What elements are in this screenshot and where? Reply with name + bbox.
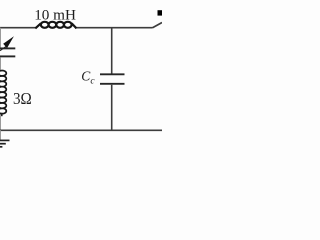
ground: bar 2 — [0, 143, 6, 145]
variable capacitor (left, cut off): top plate — [0, 47, 15, 49]
ground: bar 1 — [0, 139, 10, 141]
partial letter blob at top-right corner (cut off) — [158, 10, 163, 15]
capacitor C_C: top plate — [100, 73, 125, 75]
wire: capacitor branch lower vertical — [111, 85, 113, 130]
variable capacitor: bottom plate — [0, 55, 15, 57]
variable capacitor: arrowhead — [3, 36, 14, 48]
wire: top-right diagonal stub (cut off by crop) — [153, 23, 163, 28]
wire: left branch between capacitor and coil — [0, 57, 1, 70]
ground symbol (bottom-left, cut off): stem — [0, 130, 1, 139]
capacitor C_C: bottom plate — [100, 83, 125, 85]
wire: left branch upper vertical (at crop edge) — [0, 28, 1, 48]
wire: left branch lower stub to bottom wire — [1, 113, 3, 116]
ground: bar 3 — [0, 146, 2, 148]
variable capacitor: arrow shaft — [0, 45, 8, 50]
svg-text:Cc: Cc — [81, 68, 95, 86]
svg-text:3Ω: 3Ω — [13, 89, 32, 108]
inductor L1 10 mH (4 curly loops on top wire) — [35, 22, 76, 29]
wire: capacitor branch upper vertical — [111, 28, 113, 74]
resistor 3 ohm (vertical curly coil at crop edge, right halves visible) — [0, 71, 6, 114]
wire: bottom horizontal — [0, 129, 162, 131]
wire: left branch faint edge wire to bottom — [0, 116, 1, 130]
svg-text:10 mH: 10 mH — [34, 6, 76, 23]
wire: top horizontal left of inductor — [0, 27, 37, 29]
wire: top horizontal right of inductor — [76, 27, 152, 29]
